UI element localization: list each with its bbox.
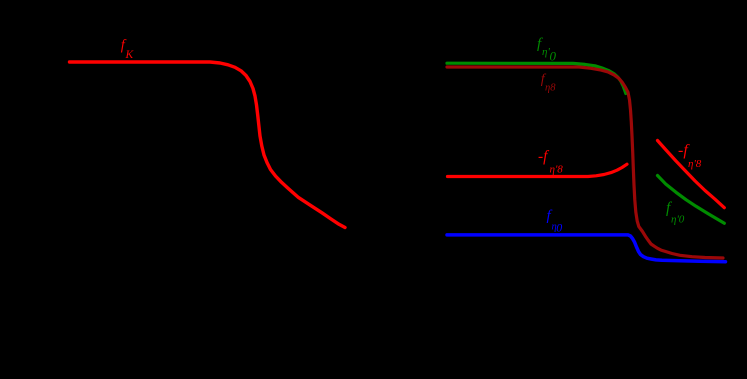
curve f_eta'0 (right panel top, green) (447, 63, 626, 93)
curve -f_eta'8 (right branch, bright red) (658, 141, 725, 208)
curve f_eta0 (blue) (447, 235, 726, 262)
curve f_K (left panel, bright red) (70, 62, 346, 228)
svg-text:η'8: η'8 (550, 164, 564, 176)
curve f_eta'0 (right branch, green) (658, 176, 725, 224)
label -f_eta'8 (right, bright red) (678, 142, 702, 170)
svg-text:η'8: η'8 (688, 158, 702, 170)
curve f_eta8 (right panel, dark red) (447, 67, 723, 258)
curve -f_eta'8 (middle, bright red) (448, 164, 628, 176)
svg-text:η8: η8 (545, 83, 556, 94)
svg-text:0: 0 (556, 221, 562, 235)
label f_K (red) (121, 38, 135, 62)
svg-text:η'0: η'0 (671, 214, 685, 226)
label f_eta'0 (green) (537, 36, 557, 64)
label f_eta0 (blue) (547, 208, 563, 235)
svg-text:K: K (125, 49, 135, 61)
svg-text:0: 0 (550, 49, 557, 64)
label f_eta'0 (right, green) (666, 200, 685, 226)
label -f_eta'8 (bright red) (538, 148, 563, 176)
label f_eta8 (dark red) (541, 72, 557, 94)
